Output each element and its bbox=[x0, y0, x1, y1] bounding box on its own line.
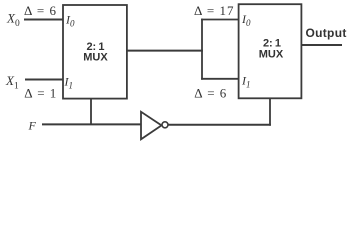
svg-text:0: 0 bbox=[15, 19, 20, 29]
inverter G1 triangle bbox=[141, 112, 162, 140]
pin label I0 of U2 bbox=[241, 12, 251, 28]
svg-text:1: 1 bbox=[246, 80, 251, 90]
svg-text:Δ = 6: Δ = 6 bbox=[194, 86, 227, 101]
wire X1 to U1.I1 bbox=[25, 79, 63, 81]
wire F to inverter input bbox=[42, 123, 142, 125]
pin label I0 of U1 bbox=[65, 13, 75, 29]
wire inverter output to U2 select bbox=[168, 124, 271, 126]
wire splitter vertical bbox=[201, 19, 203, 80]
wire U1 select line bbox=[90, 98, 92, 125]
pin label I1 of U2 bbox=[241, 74, 251, 90]
mux U1 (2:1 MUX) bbox=[63, 5, 127, 99]
pin label I1 of U1 bbox=[64, 75, 74, 91]
wire top branch to U2.I0 bbox=[201, 19, 238, 21]
svg-text:0: 0 bbox=[70, 19, 75, 29]
svg-text:Δ = 6: Δ = 6 bbox=[24, 3, 57, 18]
svg-text:1: 1 bbox=[14, 81, 19, 91]
wire U1 output to splitter node bbox=[127, 50, 203, 52]
wire X0 to U1.I0 bbox=[24, 19, 63, 21]
svg-text:MUX: MUX bbox=[83, 52, 108, 64]
wire U2 output bbox=[301, 44, 342, 46]
wire U2 select line bbox=[269, 98, 271, 126]
mux U2 (2:1 MUX) bbox=[239, 4, 302, 98]
inverter G1 bubble bbox=[162, 122, 168, 128]
svg-text:Δ = 1: Δ = 1 bbox=[24, 85, 57, 100]
svg-text:F: F bbox=[28, 119, 37, 133]
input label X0 bbox=[6, 11, 20, 30]
input label X1 bbox=[5, 73, 19, 92]
svg-text:1: 1 bbox=[69, 81, 74, 91]
svg-text:0: 0 bbox=[246, 18, 251, 28]
svg-text:Output: Output bbox=[306, 26, 347, 40]
wire bottom branch to U2.I1 bbox=[201, 78, 238, 80]
svg-text:Δ = 17: Δ = 17 bbox=[194, 3, 234, 18]
svg-text:MUX: MUX bbox=[259, 49, 284, 61]
